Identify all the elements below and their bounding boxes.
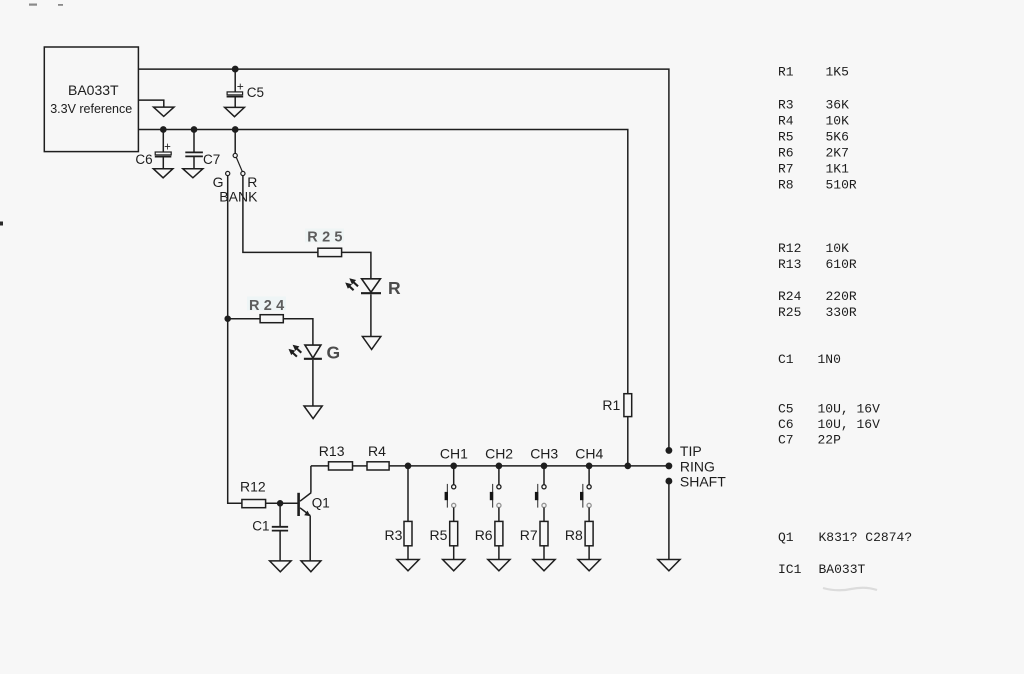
svg-text:10K: 10K	[826, 241, 850, 256]
svg-text:5K6: 5K6	[826, 130, 849, 145]
wire R8 to ground	[588, 546, 590, 560]
svg-text:R6: R6	[475, 527, 493, 543]
scan artifact smudge under IC1 row	[823, 588, 877, 591]
svg-text:2K7: 2K7	[826, 146, 849, 161]
svg-text:220R: 220R	[826, 289, 857, 304]
wire G bank line	[228, 176, 242, 504]
resistor R8	[585, 521, 593, 545]
svg-text:K831? C2874?: K831? C2874?	[819, 530, 913, 545]
svg-text:R4: R4	[778, 114, 794, 129]
svg-text:RING: RING	[680, 458, 715, 474]
svg-text:610R: 610R	[826, 257, 857, 272]
wire R12 to base	[266, 502, 298, 504]
capacitor C6	[155, 130, 172, 169]
wire R bank line	[243, 176, 318, 253]
ground C6	[153, 169, 173, 178]
ground C7	[183, 169, 203, 178]
capacitor C1	[272, 503, 288, 561]
wire collector to R13	[311, 465, 329, 467]
junction C1 node	[278, 501, 283, 506]
svg-text:510R: 510R	[826, 178, 857, 193]
LED D-G green	[304, 345, 322, 406]
svg-text:R12: R12	[240, 479, 266, 495]
switch CH1 pushbutton	[445, 466, 456, 522]
svg-text:R8: R8	[778, 178, 794, 193]
wire R6 to ground	[498, 546, 500, 560]
svg-text:10U, 16V: 10U, 16V	[818, 402, 881, 417]
junction R3 node	[405, 463, 410, 468]
svg-text:R25: R25	[307, 230, 347, 246]
label halo R25	[305, 229, 344, 243]
svg-text:CH4: CH4	[575, 445, 603, 461]
ground LED G	[304, 406, 322, 419]
svg-text:TIP: TIP	[680, 443, 702, 459]
LED G light arrows	[289, 345, 302, 357]
junction CH4 node	[587, 463, 592, 468]
wire SHAFT to ground	[668, 484, 670, 560]
svg-text:R13: R13	[319, 443, 345, 459]
wire collector	[310, 466, 312, 493]
svg-text:R6: R6	[778, 146, 794, 161]
transistor Q1	[297, 493, 311, 516]
svg-text:Q1: Q1	[312, 495, 330, 510]
wire 3.3V output rail	[138, 130, 627, 394]
svg-text:36K: 36K	[826, 98, 850, 113]
svg-text:+: +	[237, 80, 244, 94]
svg-text:22P: 22P	[818, 433, 842, 448]
wire R5 to ground	[453, 546, 455, 560]
svg-text:R7: R7	[778, 162, 794, 177]
svg-text:R: R	[388, 278, 401, 298]
ground Q1 emitter	[301, 561, 321, 572]
svg-text:C7: C7	[203, 152, 220, 167]
junction CH3 node	[541, 463, 546, 468]
junction BANK switch node	[233, 127, 238, 132]
resistor R24	[228, 315, 284, 323]
svg-text:C6: C6	[135, 152, 152, 167]
svg-text:3.3V reference: 3.3V reference	[50, 102, 132, 116]
ground R8	[578, 560, 600, 571]
resistor R13	[329, 462, 353, 470]
junction R1 node	[625, 463, 630, 468]
svg-text:C1: C1	[778, 352, 794, 367]
node TIP	[666, 448, 671, 453]
svg-text:R4: R4	[368, 443, 386, 459]
junction CH2 node	[496, 463, 501, 468]
svg-text:C5: C5	[247, 85, 264, 100]
svg-text:+: +	[164, 142, 171, 154]
switch CH4 pushbutton	[580, 466, 591, 522]
ground R5	[443, 560, 465, 571]
capacitor C5	[227, 69, 244, 107]
LED D-R red	[361, 279, 381, 337]
svg-text:1K5: 1K5	[826, 65, 849, 80]
capacitor C7	[185, 130, 203, 169]
wire VCC top rail	[138, 69, 669, 448]
svg-text:R12: R12	[778, 241, 801, 256]
switch BANK (SPDT G/R)	[226, 130, 245, 176]
svg-text:SHAFT: SHAFT	[680, 473, 726, 489]
ground LED R	[362, 337, 380, 350]
wire RING bus	[389, 465, 669, 467]
svg-text:R8: R8	[565, 527, 583, 543]
svg-text:R3: R3	[384, 527, 402, 543]
resistor R12	[242, 500, 266, 508]
resistor R3	[404, 521, 412, 545]
ground SHAFT	[658, 560, 680, 571]
LED R light arrows	[345, 278, 358, 290]
ground C5	[225, 107, 245, 116]
resistor R5	[450, 521, 458, 545]
junction C6 node	[161, 127, 166, 132]
svg-text:CH1: CH1	[440, 445, 468, 461]
svg-text:10K: 10K	[826, 114, 850, 129]
ground R7	[533, 560, 555, 571]
svg-text:R1: R1	[602, 397, 620, 413]
svg-text:C6: C6	[778, 417, 794, 432]
svg-text:C1: C1	[252, 519, 269, 534]
svg-text:R13: R13	[778, 257, 801, 272]
svg-text:R3: R3	[778, 98, 794, 113]
label halo R24	[247, 297, 286, 311]
svg-text:BANK: BANK	[219, 188, 258, 204]
svg-text:BA033T: BA033T	[819, 562, 866, 577]
scan artifact left edge tick	[0, 222, 3, 226]
ground R3	[397, 560, 419, 571]
wire R3 to ground	[407, 546, 409, 560]
svg-text:R5: R5	[429, 527, 447, 543]
switch CH3 pushbutton	[535, 466, 546, 522]
resistor R25	[318, 248, 342, 256]
switch CH2 pushbutton	[490, 466, 501, 522]
IC IC1 BA033T 3.3V reference box	[44, 47, 138, 152]
svg-text:R7: R7	[520, 527, 538, 543]
junction R24 node	[225, 316, 230, 321]
svg-text:R24: R24	[249, 298, 289, 314]
resistor R7	[540, 521, 548, 545]
wire R1 to RING bus	[627, 417, 629, 466]
ground R6	[488, 560, 510, 571]
wire R24 to LED G	[283, 319, 313, 345]
wire IC ground pin	[138, 100, 163, 107]
wire emitter	[309, 516, 311, 561]
wire R3 drop	[407, 466, 409, 522]
wire R7 to ground	[543, 546, 545, 560]
node RING	[666, 463, 671, 468]
svg-text:10U, 16V: 10U, 16V	[818, 417, 881, 432]
svg-text:1N0: 1N0	[818, 352, 841, 367]
resistor R4	[367, 462, 389, 470]
ground C1	[270, 561, 292, 572]
svg-text:CH2: CH2	[485, 445, 513, 461]
wire R13 to R4	[353, 465, 368, 467]
junction C7 node	[191, 127, 196, 132]
svg-text:1K1: 1K1	[826, 162, 850, 177]
svg-text:CH3: CH3	[530, 445, 558, 461]
svg-text:BA033T: BA033T	[68, 82, 119, 98]
ground IC pin	[154, 107, 175, 116]
svg-text:R25: R25	[778, 305, 801, 320]
svg-text:R5: R5	[778, 130, 794, 145]
resistor R6	[495, 521, 503, 545]
svg-text:C5: C5	[778, 402, 794, 417]
svg-text:C7: C7	[778, 433, 794, 448]
svg-text:Q1: Q1	[778, 530, 794, 545]
svg-text:R1: R1	[778, 65, 794, 80]
svg-text:330R: 330R	[826, 305, 857, 320]
node SHAFT	[666, 478, 671, 483]
svg-text:G: G	[327, 343, 341, 363]
junction C5 node	[233, 66, 238, 71]
svg-text:IC1: IC1	[778, 562, 802, 577]
svg-text:R24: R24	[778, 289, 802, 304]
resistor R1	[624, 394, 632, 417]
scan artifact top edge marks	[29, 4, 63, 6]
junction CH1 node	[451, 463, 456, 468]
wire R25 to LED R	[342, 252, 371, 278]
